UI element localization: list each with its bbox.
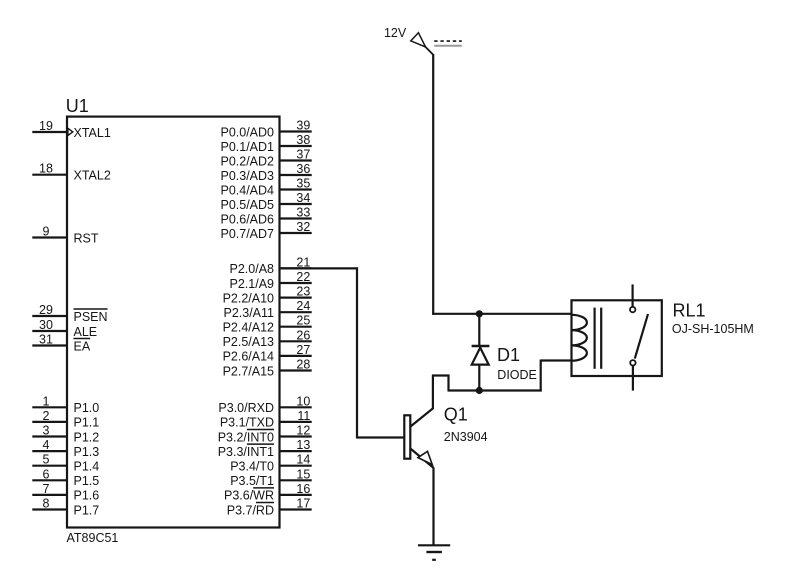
- svg-text:36: 36: [296, 162, 310, 176]
- svg-text:P2.5/A13: P2.5/A13: [223, 335, 274, 349]
- relay switch bottom pin: [632, 366, 634, 391]
- pin 10 stub (P3.0/RXD): [280, 406, 312, 408]
- svg-text:P1.7: P1.7: [74, 503, 100, 517]
- svg-text:19: 19: [39, 119, 53, 133]
- relay coil arcs: [572, 315, 587, 361]
- svg-text:OJ-SH-105HM: OJ-SH-105HM: [672, 322, 754, 336]
- diode D1 triangle: [472, 348, 489, 365]
- wire bottom horizontal to relay branch: [448, 389, 542, 391]
- svg-text:3: 3: [43, 424, 50, 438]
- relay switch bottom contact circle: [630, 360, 635, 365]
- svg-text:RST: RST: [74, 231, 99, 245]
- svg-text:P0.7/AD7: P0.7/AD7: [220, 227, 274, 241]
- wire vertical to relay coil bottom pin: [540, 360, 542, 392]
- svg-text:P0.4/AD4: P0.4/AD4: [220, 183, 274, 197]
- wire 12V horizontal to relay coil: [432, 313, 571, 315]
- svg-text:28: 28: [296, 358, 310, 372]
- svg-text:ALE: ALE: [74, 325, 98, 339]
- svg-text:P3.4/T0: P3.4/T0: [230, 460, 274, 474]
- pin 15 stub (P3.5/T1): [280, 479, 312, 481]
- svg-text:16: 16: [296, 482, 310, 496]
- pin 39 stub (P0.0/AD0): [280, 130, 312, 132]
- svg-text:37: 37: [296, 148, 310, 162]
- relay core line 1: [593, 308, 595, 369]
- svg-text:5: 5: [43, 453, 50, 467]
- svg-text:U1: U1: [66, 96, 89, 116]
- pin 7 stub (P1.6): [32, 494, 67, 496]
- pin 2 stub (P1.1): [32, 421, 67, 423]
- pin 18 stub (XTAL2): [32, 174, 67, 176]
- svg-text:P3.0/RXD: P3.0/RXD: [218, 401, 274, 415]
- svg-text:8: 8: [43, 497, 50, 511]
- svg-text:12V: 12V: [384, 26, 407, 40]
- Q1 collector diagonal: [411, 408, 434, 427]
- svg-text:RL1: RL1: [673, 300, 706, 320]
- svg-text:P2.7/A15: P2.7/A15: [223, 364, 274, 378]
- svg-text:P0.3/AD3: P0.3/AD3: [220, 169, 274, 183]
- pin 14 stub (P3.4/T0): [280, 465, 312, 467]
- overline for RD: [256, 502, 274, 504]
- pin 30 stub (ALE): [32, 330, 67, 332]
- svg-text:33: 33: [296, 206, 310, 220]
- overline for INT1: [247, 443, 274, 445]
- IC U1 AT89C51 body: [67, 117, 280, 528]
- svg-text:29: 29: [39, 303, 53, 317]
- diode D1 anode wire: [478, 365, 480, 391]
- svg-text:XTAL2: XTAL2: [74, 169, 111, 183]
- node junction bottom of D1: [476, 387, 483, 394]
- Q1 emitter diagonal: [411, 449, 434, 468]
- pin 13 stub (P3.3/INT1): [280, 450, 312, 452]
- svg-text:P2.6/A14: P2.6/A14: [223, 350, 274, 364]
- svg-text:P1.6: P1.6: [74, 489, 100, 503]
- pin 11 stub (P3.1/TXD): [280, 421, 312, 423]
- pin 5 stub (P1.4): [32, 465, 67, 467]
- svg-text:14: 14: [296, 453, 310, 467]
- svg-text:DIODE: DIODE: [497, 368, 537, 382]
- svg-text:22: 22: [296, 270, 310, 284]
- svg-text:25: 25: [296, 314, 310, 328]
- pin 22 stub (P2.1/A9): [280, 282, 312, 284]
- pin 31 stub (EA): [32, 344, 67, 346]
- Q1 collector vertical wire: [432, 376, 434, 409]
- svg-text:17: 17: [296, 497, 310, 511]
- power rail gray bar: [434, 45, 462, 47]
- pin 24 stub (P2.3/A11): [280, 311, 312, 313]
- pin 16 stub (P3.6/WR): [280, 494, 312, 496]
- svg-text:P2.0/A8: P2.0/A8: [230, 262, 275, 276]
- diode D1 cathode wire: [478, 314, 480, 346]
- svg-text:PSEN: PSEN: [74, 310, 108, 324]
- svg-text:P3.1/TXD: P3.1/TXD: [220, 416, 274, 430]
- svg-text:P1.1: P1.1: [74, 416, 100, 430]
- svg-text:2N3904: 2N3904: [444, 430, 488, 444]
- wire P2.0/A8 horizontal from pin 21: [280, 267, 359, 269]
- power rail dashed mark: [434, 40, 462, 42]
- wire 12V vertical: [432, 54, 434, 315]
- relay switch top pin: [631, 284, 633, 307]
- Q1 emitter vertical wire to ground: [432, 467, 434, 545]
- overline for PSEN: [74, 308, 108, 310]
- svg-text:P2.3/A11: P2.3/A11: [223, 306, 274, 320]
- power 12V arrow triangle: [411, 33, 426, 47]
- pin 38 stub (P0.1/AD1): [280, 145, 312, 147]
- pin 6 stub (P1.5): [32, 479, 67, 481]
- svg-text:P0.2/AD2: P0.2/AD2: [220, 154, 274, 168]
- pin 37 stub (P0.2/AD2): [280, 159, 312, 161]
- pin 17 stub (P3.7/RD): [280, 508, 312, 510]
- pin 8 stub (P1.7): [32, 508, 67, 510]
- relay RL1 body: [572, 300, 662, 376]
- svg-text:AT89C51: AT89C51: [67, 531, 119, 545]
- svg-text:9: 9: [43, 225, 50, 239]
- wire collector step vertical: [447, 375, 449, 391]
- svg-text:P1.5: P1.5: [74, 474, 100, 488]
- pin 34 stub (P0.5/AD5): [280, 203, 312, 205]
- svg-text:P3.2/INT0: P3.2/INT0: [218, 430, 274, 444]
- svg-text:6: 6: [43, 467, 50, 481]
- svg-text:10: 10: [296, 394, 310, 408]
- pin 12 stub (P3.2/INT0): [280, 435, 312, 437]
- svg-text:34: 34: [296, 191, 310, 205]
- svg-text:31: 31: [39, 333, 53, 347]
- svg-text:27: 27: [296, 343, 310, 357]
- svg-text:P3.6/WR: P3.6/WR: [224, 489, 274, 503]
- pin 3 stub (P1.2): [32, 435, 67, 437]
- XTAL1 input arrow at box edge: [68, 128, 73, 135]
- pin 29 stub (PSEN): [32, 315, 67, 317]
- overline for INT0: [247, 429, 274, 431]
- pin 21 stub (P2.0/A8): [280, 267, 312, 269]
- svg-text:P1.0: P1.0: [74, 401, 100, 415]
- svg-text:P3.7/RD: P3.7/RD: [227, 503, 274, 517]
- pin 4 stub (P1.3): [32, 450, 67, 452]
- pin 36 stub (P0.3/AD3): [280, 174, 312, 176]
- svg-text:P0.1/AD1: P0.1/AD1: [220, 140, 274, 154]
- svg-text:2: 2: [43, 409, 50, 423]
- wire horizontal to Q1 base: [357, 436, 404, 438]
- svg-text:38: 38: [296, 133, 310, 147]
- relay core line 2: [600, 308, 602, 369]
- pin 19 stub (XTAL1): [32, 131, 67, 133]
- svg-text:24: 24: [296, 299, 310, 313]
- overline for EA: [74, 338, 91, 340]
- svg-text:13: 13: [296, 438, 310, 452]
- transistor Q1 base bar: [404, 415, 410, 458]
- ground symbol: [418, 544, 450, 546]
- svg-text:P2.4/A12: P2.4/A12: [223, 321, 274, 335]
- power diagonal lead: [425, 47, 433, 55]
- pin 25 stub (P2.4/A12): [280, 326, 312, 328]
- svg-text:P1.4: P1.4: [74, 460, 100, 474]
- svg-text:35: 35: [296, 177, 310, 191]
- pin 28 stub (P2.7/A15): [280, 369, 312, 371]
- svg-text:18: 18: [39, 162, 53, 176]
- svg-text:P0.5/AD5: P0.5/AD5: [220, 198, 274, 212]
- svg-text:P1.2: P1.2: [74, 430, 100, 444]
- svg-text:12: 12: [296, 424, 310, 438]
- overline for WR: [253, 487, 274, 489]
- svg-text:P0.0/AD0: P0.0/AD0: [220, 125, 274, 139]
- svg-text:P0.6/AD6: P0.6/AD6: [220, 212, 274, 226]
- svg-text:23: 23: [296, 285, 310, 299]
- svg-text:P2.1/A9: P2.1/A9: [230, 277, 275, 291]
- svg-text:1: 1: [43, 394, 50, 408]
- pin 35 stub (P0.4/AD4): [280, 188, 312, 190]
- relay switch top contact circle: [630, 307, 635, 312]
- pin 1 stub (P1.0): [32, 406, 67, 408]
- svg-text:P2.2/A10: P2.2/A10: [223, 291, 274, 305]
- node junction top of D1: [476, 310, 483, 317]
- pin 33 stub (P0.6/AD6): [280, 217, 312, 219]
- pin 26 stub (P2.5/A13): [280, 340, 312, 342]
- svg-text:4: 4: [43, 438, 50, 452]
- svg-text:P3.3/INT1: P3.3/INT1: [218, 445, 274, 459]
- svg-text:EA: EA: [74, 339, 91, 353]
- svg-text:30: 30: [39, 318, 53, 332]
- pin 32 stub (P0.7/AD7): [280, 232, 312, 234]
- wire collector step horizontal: [432, 374, 450, 376]
- svg-text:P3.5/T1: P3.5/T1: [230, 474, 274, 488]
- pin 27 stub (P2.6/A14): [280, 355, 312, 357]
- wire vertical down to base: [356, 267, 358, 438]
- svg-text:XTAL1: XTAL1: [74, 126, 111, 140]
- wire horizontal to relay coil bottom: [541, 359, 572, 361]
- svg-text:32: 32: [296, 220, 310, 234]
- svg-text:26: 26: [296, 328, 310, 342]
- Q1 emitter arrow: [418, 451, 432, 464]
- pin 9 stub (RST): [32, 236, 67, 238]
- diode D1 cathode bar: [472, 345, 490, 347]
- svg-text:39: 39: [296, 119, 310, 133]
- svg-text:D1: D1: [497, 345, 520, 365]
- svg-text:15: 15: [296, 467, 310, 481]
- relay switch arm: [635, 314, 648, 359]
- pin 23 stub (P2.2/A10): [280, 297, 312, 299]
- svg-text:11: 11: [297, 409, 310, 423]
- svg-text:Q1: Q1: [444, 405, 468, 425]
- svg-text:P1.3: P1.3: [74, 445, 100, 459]
- svg-text:7: 7: [43, 482, 50, 496]
